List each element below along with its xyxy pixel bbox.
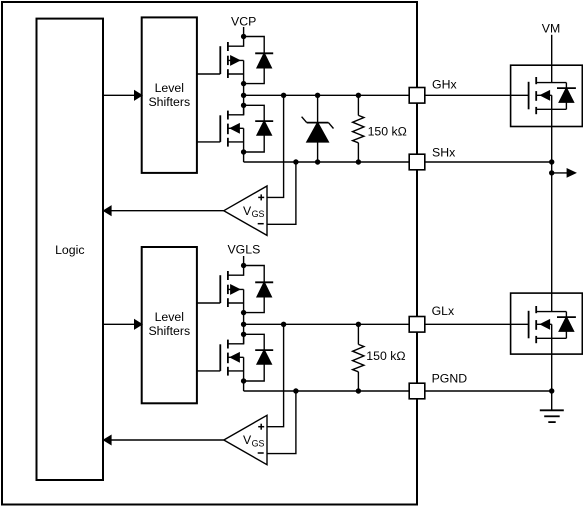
node: Q4 source junction bbox=[241, 378, 246, 383]
wire: GLx sense to comparator 2 + input bbox=[267, 324, 284, 426]
node: R1 top on GHx rail bbox=[356, 93, 361, 98]
svg-text:Level: Level bbox=[155, 310, 184, 324]
node: VGS1 - sense tap on SHx bbox=[293, 159, 298, 164]
ground symbol (PGND) bbox=[540, 391, 564, 422]
transistor M1 (external high-side MOSFET) bbox=[529, 77, 567, 114]
wire: PGND rail bbox=[244, 390, 552, 392]
node: VGS1 + sense tap on GHx bbox=[281, 93, 286, 98]
svg-text:GHx: GHx bbox=[432, 78, 457, 92]
wire: Q2 source to SHx rail bbox=[243, 152, 245, 162]
level shifters block 1 (high-side) bbox=[142, 17, 197, 173]
body diode of M1 bbox=[557, 83, 576, 110]
node: R2 top on GLx rail bbox=[356, 322, 361, 327]
arrow: logic to level shifters 1 bbox=[103, 91, 142, 100]
resistor R2 150k (GLx-PGND) bbox=[353, 324, 364, 391]
wire: VCP stub bbox=[243, 27, 245, 38]
arrow: phase output current bbox=[552, 169, 576, 177]
wire: VGLS stub bbox=[243, 256, 245, 267]
svg-text:GS: GS bbox=[252, 209, 265, 219]
svg-text:VM: VM bbox=[542, 21, 560, 35]
svg-text:150 kΩ: 150 kΩ bbox=[368, 124, 407, 138]
wire: half-bridge center column (GHx net) bbox=[243, 84, 245, 115]
node: R2 bottom on PGND rail bbox=[356, 388, 361, 393]
node: Q4 drain junction bbox=[241, 332, 246, 337]
svg-text:GLx: GLx bbox=[432, 304, 455, 318]
transistor Q1 (high-side gate pull-up FET) bbox=[197, 37, 244, 84]
pin GLx (terminal square) bbox=[409, 317, 425, 333]
node: GLx net junction bbox=[241, 322, 246, 327]
svg-text:PGND: PGND bbox=[432, 371, 468, 385]
body diode of Q1 bbox=[244, 37, 274, 84]
svg-text:VCP: VCP bbox=[231, 14, 256, 28]
wire: PGND sense to comparator 2 - input bbox=[267, 391, 296, 454]
external low-side MOSFET box bbox=[511, 293, 583, 354]
node: PGND junction at M2 source bbox=[549, 388, 554, 393]
node: VCP junction bbox=[241, 34, 246, 39]
transistor Q4 (low-side gate pull-down FET) bbox=[197, 334, 244, 381]
wire: GLx rail to external MOSFET gate bbox=[244, 323, 529, 325]
node: SHx junction at M1 source bbox=[549, 159, 554, 164]
svg-text:GS: GS bbox=[252, 438, 265, 448]
zener clamp diode (GHx-SHx) bbox=[302, 95, 334, 162]
wire: comparator 1 output to logic with arrow bbox=[104, 206, 224, 215]
node: GHx net junction bbox=[241, 93, 246, 98]
node: VGS2 + sense tap on GLx bbox=[281, 322, 286, 327]
body diode of M2 bbox=[557, 312, 576, 339]
svg-text:Logic: Logic bbox=[55, 243, 84, 257]
arrow: logic to level shifters 2 bbox=[103, 320, 142, 329]
node: VGS2 - sense tap on PGND bbox=[293, 388, 298, 393]
body diode of Q4 bbox=[244, 334, 274, 381]
node: Q2 drain junction bbox=[241, 103, 246, 108]
wire: SHx sense to comparator 1 - input bbox=[267, 162, 296, 224]
op-amp U2: VGS monitor comparator (low-side) bbox=[224, 415, 267, 464]
svg-text:SHx: SHx bbox=[432, 145, 456, 159]
node: phase output junction bbox=[549, 170, 554, 175]
wire: comparator 2 output to logic with arrow bbox=[104, 436, 224, 445]
pin PGND (terminal square) bbox=[409, 383, 425, 399]
svg-text:Level: Level bbox=[155, 81, 184, 95]
pin SHx (terminal square) bbox=[409, 154, 425, 170]
node: R1 bottom on SHx rail bbox=[356, 159, 361, 164]
outer box: gate driver IC boundary bbox=[2, 2, 417, 505]
transistor Q3 (low-side gate pull-up FET) bbox=[197, 266, 244, 313]
transistor Q2 (high-side gate pull-down FET) bbox=[197, 105, 244, 152]
resistor R1 150k (GHx-SHx) bbox=[353, 95, 364, 162]
wire: half-bridge center column (GLx net) bbox=[243, 313, 245, 344]
node: zener anode on SHx rail bbox=[315, 159, 320, 164]
transistor M2 (external low-side MOSFET) bbox=[529, 306, 567, 343]
wire: Q4 source to PGND rail bbox=[243, 381, 245, 391]
op-amp U1: VGS monitor comparator (high-side) bbox=[224, 186, 267, 235]
svg-text:150 kΩ: 150 kΩ bbox=[366, 349, 405, 363]
svg-text:Shifters: Shifters bbox=[148, 95, 190, 109]
node: Q3 source junction bbox=[241, 310, 246, 315]
node: zener cathode on GHx rail bbox=[315, 93, 320, 98]
body diode of Q3 bbox=[244, 266, 274, 313]
external high-side MOSFET box bbox=[511, 65, 583, 126]
node: Q1 source junction bbox=[241, 81, 246, 86]
svg-text:Shifters: Shifters bbox=[148, 324, 190, 338]
svg-text:VGLS: VGLS bbox=[227, 243, 260, 257]
wire: VM supply to M1 drain bbox=[551, 35, 553, 83]
wire: M1 source column through SHx to M2 drain bbox=[551, 95, 553, 311]
logic block bbox=[37, 19, 104, 480]
pin GHx (terminal square) bbox=[409, 88, 425, 104]
wire: SHx rail bbox=[244, 161, 552, 163]
node: VGLS junction bbox=[241, 263, 246, 268]
node: Q2 source junction bbox=[241, 149, 246, 154]
wire: M2 source to PGND bbox=[551, 324, 553, 391]
wire: GHx rail to external MOSFET gate bbox=[244, 94, 529, 96]
body diode of Q2 bbox=[244, 105, 274, 152]
level shifters block 2 (low-side) bbox=[142, 247, 197, 403]
wire: GHx sense to comparator 1 + input bbox=[267, 95, 284, 197]
